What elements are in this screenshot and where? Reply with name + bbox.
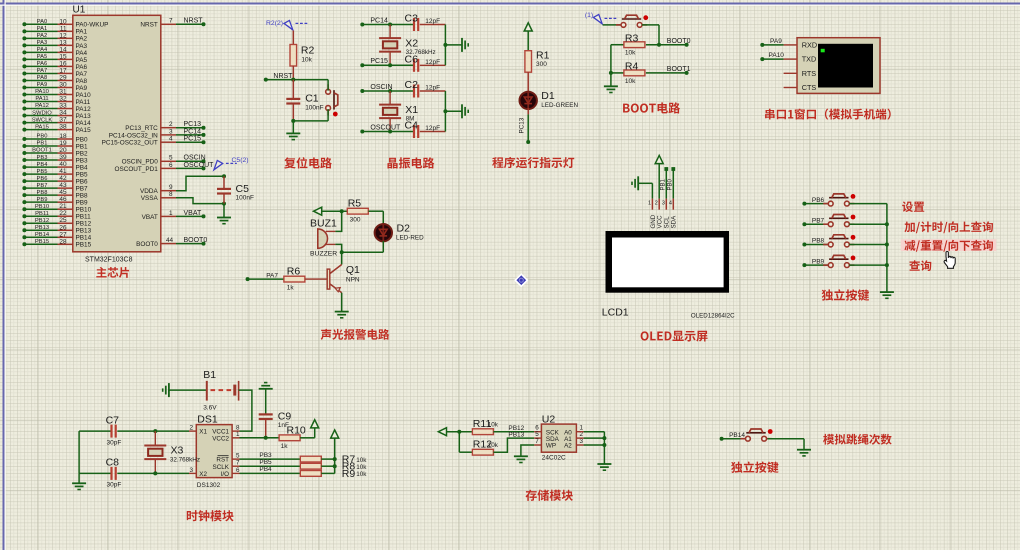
svg-text:C2: C2: [405, 79, 419, 91]
svg-text:17: 17: [59, 67, 67, 74]
pin VBAT (1): [142, 210, 206, 221]
svg-text:RXD: RXD: [802, 41, 817, 50]
pin PA9 (30) with net PA9: [22, 81, 87, 91]
pin PA5 (15) with net PA5: [22, 53, 87, 63]
wire D2 to collector node: [342, 241, 384, 252]
svg-text:6: 6: [169, 162, 173, 169]
svg-text:A2: A2: [564, 443, 572, 450]
U2 address pins to ground: [576, 432, 611, 471]
svg-text:PB6: PB6: [76, 179, 89, 186]
svg-text:44: 44: [166, 237, 174, 244]
svg-text:PA8: PA8: [37, 75, 48, 81]
net PC14 wire: [360, 17, 414, 26]
svg-text:29: 29: [59, 74, 67, 81]
svg-text:10k: 10k: [356, 464, 367, 471]
reset push button: [326, 84, 338, 116]
svg-text:PC14: PC14: [184, 128, 202, 135]
svg-text:PB10: PB10: [76, 207, 92, 214]
svg-text:SWCLK: SWCLK: [32, 117, 53, 123]
svg-text:16: 16: [59, 60, 67, 67]
svg-text:PB4: PB4: [37, 162, 49, 168]
svg-text:PB14: PB14: [76, 235, 92, 242]
svg-text:I/O: I/O: [221, 471, 229, 478]
svg-text:PA13: PA13: [76, 113, 92, 120]
svg-text:PB7: PB7: [37, 183, 48, 189]
label independent keys: [822, 289, 869, 301]
svg-text:PA1: PA1: [76, 29, 88, 36]
svg-text:20: 20: [59, 147, 67, 154]
svg-text:22: 22: [59, 210, 67, 217]
svg-text:39: 39: [59, 154, 67, 161]
resistor R4 10k: [609, 61, 691, 85]
menu label query: [909, 260, 931, 271]
svg-text:PB1: PB1: [37, 141, 48, 147]
resistor R7 10k on net PB3: [232, 452, 367, 466]
collector node: [340, 250, 344, 254]
svg-text:14: 14: [59, 46, 67, 53]
svg-text:PA11: PA11: [35, 96, 48, 102]
svg-text:PA6: PA6: [37, 61, 48, 67]
menu label shezhi: [902, 201, 924, 212]
pin PB0 (18) with net PB0: [22, 133, 88, 143]
svg-text:PB3: PB3: [76, 157, 89, 164]
svg-text:9: 9: [169, 184, 173, 191]
svg-text:40: 40: [59, 161, 67, 168]
WP pin wire to ground: [514, 445, 542, 463]
label BOOT circuit: [623, 102, 680, 113]
virtual terminal pins RXD TXD RTS CTS: [784, 45, 797, 88]
pin PA2 (12) with net PA2: [22, 32, 87, 42]
pin PB10 (21) with net PB10: [22, 203, 91, 213]
svg-text:DS1: DS1: [197, 414, 218, 426]
net PB0 wire to SDA: [667, 167, 675, 210]
resistor R3 10k: [611, 32, 691, 56]
pin PA7 (17) with net PA7: [22, 67, 87, 77]
voltage probe R2(2): [266, 20, 308, 30]
net PC13 wire below D1: [519, 108, 531, 144]
svg-text:C4: C4: [405, 120, 419, 132]
pin PA14 (37) with net SWCLK: [22, 117, 91, 127]
label simulated jump count: [823, 434, 892, 445]
power arrow above OLED VCC: [655, 155, 663, 209]
resistor R10 1k: [279, 425, 315, 450]
svg-text:PB14: PB14: [35, 232, 50, 238]
svg-text:VSSA: VSSA: [141, 195, 159, 202]
pin PA3 (13) with net PA3: [22, 39, 87, 49]
svg-text:31: 31: [59, 89, 67, 96]
buzzer wires: [335, 211, 341, 252]
svg-text:PB7: PB7: [76, 186, 89, 193]
svg-text:PB6: PB6: [37, 176, 48, 182]
svg-text:NRST: NRST: [184, 18, 204, 25]
wire R11 to R12: [458, 432, 460, 453]
power arrow left of R5: [314, 207, 348, 215]
svg-text:PB9: PB9: [76, 200, 89, 207]
svg-text:13: 13: [59, 39, 67, 46]
svg-text:8: 8: [169, 191, 173, 198]
svg-text:R2(2): R2(2): [266, 20, 283, 27]
svg-text:12pF: 12pF: [425, 59, 440, 66]
pin PB14 (27) with net PB14: [22, 231, 91, 241]
capacitor C3 12pF: [405, 13, 446, 32]
svg-text:SWDIO: SWDIO: [32, 110, 52, 116]
power arrow right of R10: [311, 420, 319, 438]
pin PA6 (16) with net PA6: [22, 60, 87, 70]
svg-text:1: 1: [648, 201, 651, 207]
pin NRST (7): [140, 18, 205, 29]
svg-text:12pF: 12pF: [425, 85, 440, 92]
svg-text:PA9: PA9: [76, 85, 88, 92]
crystal X1 8M: [379, 91, 418, 132]
battery wire to VCC1: [239, 390, 252, 431]
svg-text:C5(2): C5(2): [232, 157, 249, 164]
svg-text:X3: X3: [171, 444, 184, 456]
svg-text:4: 4: [669, 201, 672, 207]
transistor Q1 NPN: [327, 252, 360, 293]
net PC15 wire: [360, 58, 414, 67]
net PA9 wire: [760, 38, 783, 47]
svg-text:2: 2: [655, 201, 658, 207]
svg-text:12: 12: [59, 32, 67, 39]
svg-text:R5: R5: [348, 198, 362, 210]
crystal X3 32.768kHz: [144, 429, 200, 475]
U2 internal pin names: [546, 429, 572, 449]
svg-text:BUZZER: BUZZER: [310, 250, 337, 257]
svg-text:STM32F103C8: STM32F103C8: [85, 256, 133, 263]
svg-text:1k: 1k: [287, 285, 295, 292]
capacitor C9 1nF: [259, 411, 292, 438]
svg-text:BOOT0: BOOT0: [667, 38, 691, 45]
svg-text:R3: R3: [625, 32, 639, 44]
svg-text:VDDA: VDDA: [140, 188, 158, 195]
svg-text:12pF: 12pF: [425, 18, 440, 25]
svg-text:TXD: TXD: [802, 55, 817, 64]
wire R3 to R4: [610, 45, 612, 73]
svg-text:PA3: PA3: [37, 40, 48, 46]
svg-text:CTS: CTS: [802, 83, 817, 92]
pin PB11 (22) with net PB11: [22, 210, 91, 220]
svg-text:41: 41: [59, 168, 67, 175]
svg-text:R2: R2: [301, 45, 315, 57]
svg-text:PB15: PB15: [35, 239, 49, 245]
DS1 pin numbers: [189, 425, 240, 474]
svg-text:LED-GREEN: LED-GREEN: [541, 102, 578, 109]
svg-text:PA10: PA10: [769, 52, 785, 59]
svg-text:X2: X2: [199, 471, 207, 478]
svg-text:LED-RED: LED-RED: [396, 235, 424, 242]
svg-text:1: 1: [169, 210, 173, 217]
svg-text:BOOT1: BOOT1: [667, 66, 691, 73]
svg-text:VBAT: VBAT: [142, 214, 158, 221]
cursor hand icon: [944, 252, 955, 269]
svg-text:1k: 1k: [281, 443, 289, 450]
resistor R9 10k on net PB4: [232, 466, 367, 480]
ground left of OLED: [632, 176, 652, 190]
pin PA10 (31) with net PA10: [22, 89, 91, 99]
svg-text:PC13_RTC: PC13_RTC: [125, 125, 158, 132]
svg-text:10k: 10k: [356, 457, 367, 464]
svg-text:10k: 10k: [488, 422, 499, 429]
label alarm circuit: [321, 329, 390, 340]
svg-text:PA2: PA2: [37, 33, 48, 39]
pin PC13_RTC (2): [125, 121, 205, 132]
pullup bus and power arrow: [331, 430, 339, 474]
svg-text:5: 5: [169, 155, 173, 162]
svg-text:PB5: PB5: [259, 459, 272, 466]
svg-text:PB4: PB4: [76, 164, 89, 171]
svg-text:25: 25: [59, 217, 67, 224]
label OLED display: [641, 331, 708, 342]
ground left of battery: [163, 383, 206, 397]
svg-text:PB5: PB5: [37, 169, 48, 175]
label serial window: [765, 109, 891, 120]
svg-text:10k: 10k: [356, 471, 367, 478]
svg-text:PC15: PC15: [370, 58, 388, 65]
buzzer BUZ1: [310, 217, 337, 257]
svg-text:3.6V: 3.6V: [203, 404, 217, 411]
svg-text:PA4: PA4: [76, 50, 88, 57]
ground of clock module: [72, 483, 86, 489]
svg-text:R1: R1: [536, 50, 550, 62]
pin VSSA (8) wire to C5: [141, 191, 226, 205]
svg-text:C1: C1: [305, 93, 319, 105]
svg-text:OSCOUT: OSCOUT: [184, 162, 215, 169]
svg-text:30pF: 30pF: [107, 482, 122, 489]
pin PB5 (41) with net PB5: [22, 168, 88, 178]
right bus of X1 caps: [443, 91, 462, 132]
svg-text:SCL: SCL: [664, 216, 671, 229]
net PB1 wire to SCL: [660, 167, 668, 210]
pin PA11 (32) with net PA11: [22, 96, 90, 106]
U2 pin numbers: [535, 425, 583, 445]
pin PB13 (26) with net PB13: [22, 224, 91, 234]
pin PA15 (38) with net PA15: [22, 124, 91, 134]
resistor R1 300: [525, 50, 550, 93]
svg-text:C8: C8: [106, 457, 120, 469]
svg-text:PA9: PA9: [770, 38, 782, 45]
svg-text:10k: 10k: [625, 78, 636, 85]
svg-text:PB5: PB5: [76, 172, 89, 179]
svg-text:D1: D1: [541, 90, 555, 102]
voltage probe C5(2): [214, 157, 249, 170]
svg-text:B1: B1: [203, 369, 216, 381]
svg-text:OSCOUT: OSCOUT: [370, 124, 401, 131]
svg-text:PA0-WKUP: PA0-WKUP: [76, 22, 109, 29]
svg-text:C7: C7: [106, 414, 120, 426]
svg-text:SDA: SDA: [671, 215, 678, 229]
pin PB7 (43) with net PB7: [22, 182, 88, 192]
pin PC14-OSC32_IN (3): [109, 128, 206, 139]
pin VDDA (9) wire to C5: [140, 174, 226, 195]
svg-text:42: 42: [59, 175, 67, 182]
push button PB14: [720, 429, 804, 441]
svg-text:(1): (1): [585, 12, 593, 19]
menu label add/time/up: [904, 221, 993, 233]
svg-text:PB13: PB13: [508, 431, 524, 438]
svg-text:10k: 10k: [625, 50, 636, 57]
svg-text:12pF: 12pF: [425, 125, 440, 132]
capacitor C8 30pF: [79, 457, 196, 489]
svg-text:BUZ1: BUZ1: [310, 217, 337, 229]
svg-text:32.768kHz: 32.768kHz: [170, 457, 200, 464]
sheet border: [0, 3, 1020, 5]
svg-text:100nF: 100nF: [236, 195, 254, 202]
svg-text:PB7: PB7: [812, 217, 825, 224]
svg-text:37: 37: [59, 117, 67, 124]
pin PA8 (29) with net PA8: [22, 74, 87, 84]
svg-text:PB9: PB9: [37, 197, 48, 203]
right bus of X2 caps: [443, 25, 462, 66]
svg-text:PB0: PB0: [76, 136, 89, 143]
svg-text:PB3: PB3: [37, 155, 48, 161]
ground of BOOT divider: [604, 73, 618, 93]
resistor R8 10k on net PB5: [232, 459, 367, 473]
svg-text:PA15: PA15: [35, 124, 49, 130]
svg-text:OSCIN: OSCIN: [184, 155, 206, 162]
pin PB6 (42) with net PB6: [22, 175, 88, 185]
label independent key 2: [731, 461, 778, 473]
svg-text:PA5: PA5: [37, 54, 48, 60]
svg-text:PA7: PA7: [266, 272, 278, 279]
svg-text:4: 4: [169, 136, 173, 143]
label main chip: [96, 267, 129, 278]
wires to reset button: [327, 80, 329, 121]
svg-text:RTS: RTS: [802, 69, 817, 78]
svg-text:NRST: NRST: [140, 22, 157, 29]
svg-text:15: 15: [59, 53, 67, 60]
svg-text:D2: D2: [397, 223, 411, 235]
svg-text:PB13: PB13: [35, 225, 49, 231]
pin BOOT0 (44): [136, 237, 207, 248]
svg-text:PB15: PB15: [76, 242, 92, 249]
svg-text:PB10: PB10: [35, 204, 49, 210]
ground above C9: [259, 383, 273, 414]
pin PB3 (39) with net PB3: [22, 154, 88, 164]
svg-text:21: 21: [59, 203, 67, 210]
svg-text:33: 33: [59, 103, 67, 110]
svg-text:PA12: PA12: [76, 106, 92, 113]
ground below C5: [217, 204, 231, 224]
svg-text:26: 26: [59, 224, 67, 231]
LED D2 LED-RED: [375, 223, 424, 242]
svg-text:PB0: PB0: [37, 134, 48, 140]
svg-text:PC14: PC14: [370, 17, 388, 24]
svg-text:32: 32: [59, 96, 67, 103]
svg-text:PA2: PA2: [76, 36, 88, 43]
svg-text:PA6: PA6: [76, 64, 88, 71]
push button PB9: [802, 255, 887, 267]
virtual terminal body: [797, 38, 880, 94]
label reset circuit: [284, 157, 332, 168]
power arrow above R1: [524, 23, 532, 51]
svg-text:VCC: VCC: [657, 215, 664, 229]
svg-text:R9: R9: [342, 468, 356, 480]
svg-text:27: 27: [59, 231, 67, 238]
push button PB6: [802, 194, 887, 206]
key group bus to ground: [880, 204, 894, 299]
left bus of clock crystal: [78, 431, 80, 483]
capacitor C7 30pF: [79, 414, 196, 446]
ground of PB14 key: [797, 439, 811, 456]
svg-text:PA1: PA1: [37, 26, 48, 32]
pin PB9 (46) with net PB9: [22, 196, 88, 206]
svg-text:18: 18: [59, 133, 67, 140]
svg-text:10: 10: [59, 18, 67, 25]
svg-text:3: 3: [580, 438, 584, 445]
pin PC15-OSC32_OUT (4): [102, 136, 206, 147]
svg-text:46: 46: [59, 196, 67, 203]
pin OSCOUT_PD1 (6): [114, 162, 214, 173]
svg-text:PA5: PA5: [76, 57, 88, 64]
svg-text:10k: 10k: [488, 442, 499, 449]
svg-text:300: 300: [350, 217, 361, 224]
crystal X2 32.768kHz: [379, 25, 436, 66]
svg-text:X1: X1: [199, 429, 207, 436]
net PA10 wire: [760, 52, 784, 61]
power arrow left of R11: [438, 428, 472, 436]
resistor R12 10k: [459, 431, 541, 455]
svg-text:C5: C5: [236, 183, 250, 195]
svg-text:PA15: PA15: [76, 127, 92, 134]
svg-text:BOOT0: BOOT0: [136, 241, 158, 248]
svg-text:2: 2: [169, 121, 173, 128]
label clock module: [187, 510, 234, 521]
svg-text:RST: RST: [216, 457, 229, 464]
svg-text:PC14-OSC32_IN: PC14-OSC32_IN: [109, 132, 158, 139]
svg-text:OSCIN: OSCIN: [370, 84, 392, 91]
LCD1 OLED display body: [602, 231, 735, 320]
svg-text:11: 11: [60, 25, 67, 32]
U2 24C02C EEPROM: [541, 414, 576, 462]
svg-text:PB11: PB11: [35, 211, 49, 217]
svg-text:U1: U1: [73, 4, 86, 15]
svg-text:PA0: PA0: [37, 19, 48, 25]
svg-text:PB9: PB9: [812, 258, 825, 265]
svg-text:PB2: PB2: [76, 150, 89, 157]
svg-text:34: 34: [59, 110, 67, 117]
OLED pin numbers and names: [648, 201, 678, 229]
bottom wire of reset RC: [291, 119, 328, 123]
resistor R2 10k: [290, 31, 314, 80]
svg-text:7: 7: [169, 18, 173, 25]
pin PA0-WKUP (10) with net PA0: [22, 18, 108, 28]
resistor R6 1k: [246, 266, 328, 292]
wire R5 to D2: [382, 211, 384, 224]
svg-text:LCD1: LCD1: [602, 306, 629, 318]
pin PA1 (11) with net PA1: [22, 25, 87, 35]
svg-text:PA11: PA11: [76, 99, 91, 106]
menu highlight: [901, 239, 997, 251]
svg-text:C3: C3: [405, 13, 419, 25]
svg-text:45: 45: [59, 189, 67, 196]
ground right of X1: [462, 104, 468, 118]
svg-text:PA9: PA9: [37, 82, 48, 88]
ground of Q1 emitter: [335, 293, 349, 318]
svg-text:7: 7: [535, 438, 539, 445]
svg-text:C6: C6: [405, 53, 419, 65]
push button PB7: [802, 215, 887, 227]
push button PB8: [802, 235, 887, 247]
svg-text:PA10: PA10: [35, 89, 49, 95]
svg-text:PA14: PA14: [76, 120, 92, 127]
capacitor C1 100nF: [286, 80, 323, 121]
svg-text:NRST: NRST: [273, 73, 293, 80]
svg-text:OSCIN_PD0: OSCIN_PD0: [122, 159, 159, 166]
svg-text:28: 28: [59, 238, 67, 245]
svg-text:PA4: PA4: [37, 47, 48, 53]
pin PB4 (40) with net PB4: [22, 161, 88, 171]
svg-text:BOOT0: BOOT0: [184, 237, 208, 244]
